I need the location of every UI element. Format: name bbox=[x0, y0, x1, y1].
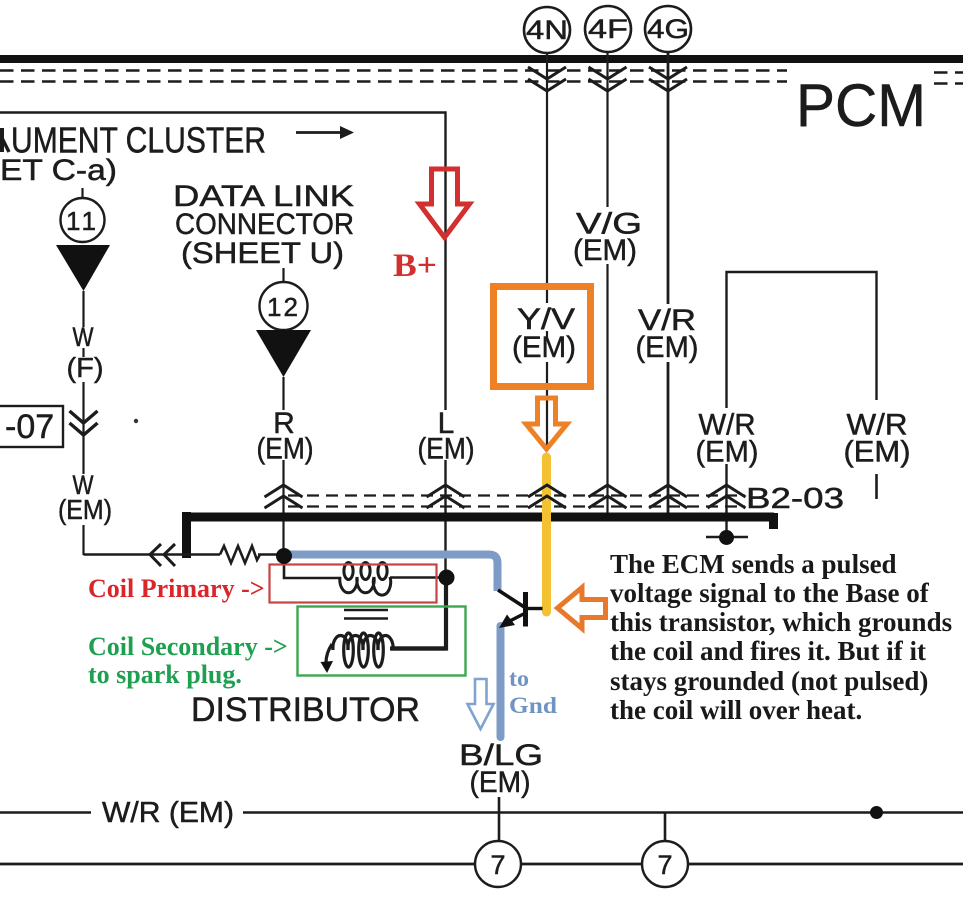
wire L from junction down to coil secondary bbox=[390, 582, 446, 649]
svg-text:B+: B+ bbox=[393, 248, 437, 284]
PCM connector boundary thick line bbox=[0, 55, 963, 63]
W/R left wire terminal junction bbox=[706, 530, 748, 545]
svg-text:(EM): (EM) bbox=[257, 433, 314, 466]
svg-text:(EM): (EM) bbox=[844, 436, 911, 469]
blue down arrow to ground bbox=[468, 679, 494, 729]
wire R vertical bbox=[282, 377, 284, 557]
svg-text:12: 12 bbox=[267, 292, 300, 322]
connector pin 12 bbox=[260, 268, 308, 330]
svg-text:voltage signal to the Base of: voltage signal to the Base of bbox=[610, 578, 930, 608]
svg-text:ET C-a): ET C-a) bbox=[0, 154, 117, 187]
ground pin 7b bbox=[642, 841, 688, 887]
svg-text:Gnd: Gnd bbox=[509, 693, 557, 718]
ground rail 1 (W/R) bbox=[0, 811, 963, 814]
svg-text:(EM): (EM) bbox=[512, 331, 576, 364]
coil secondary spark output arrow bbox=[321, 661, 334, 673]
coil secondary winding bbox=[326, 633, 393, 667]
chevron splice on W wire bbox=[70, 411, 98, 435]
W/R right stub bbox=[875, 474, 878, 499]
svg-text:(EM): (EM) bbox=[470, 766, 531, 799]
svg-text:(SHEET U): (SHEET U) bbox=[181, 237, 344, 270]
chevron splice on 4N wire at PCM bbox=[528, 67, 566, 91]
B/LG wire to ground rail bbox=[498, 797, 501, 843]
node junction at coil primary left bbox=[276, 548, 292, 564]
resistor (noise suppressor) bbox=[220, 546, 260, 563]
flow arrow right bbox=[296, 126, 354, 139]
svg-text:7: 7 bbox=[657, 850, 672, 880]
transformer core lines bbox=[344, 610, 388, 619]
wire 4N (Y/V) bbox=[546, 53, 548, 449]
connector pin 4G bbox=[645, 6, 691, 52]
chevron splice on 4G wire at PCM bbox=[649, 67, 687, 91]
svg-text:(EM): (EM) bbox=[573, 234, 637, 267]
orange down arrow at Y/V bbox=[526, 398, 567, 449]
svg-text:to: to bbox=[509, 666, 529, 691]
svg-text:DISTRIBUTOR: DISTRIBUTOR bbox=[191, 691, 420, 729]
svg-text:(EM): (EM) bbox=[696, 436, 759, 469]
coil secondary annotation box (green) bbox=[298, 607, 466, 676]
B2-03 dashed splice line bbox=[288, 496, 745, 507]
ground rail 2 bbox=[0, 863, 963, 866]
B2-07 reference box (clipped) bbox=[0, 406, 63, 447]
dashed boundary line lower bbox=[0, 82, 963, 84]
shield triangle below pin 12 bbox=[256, 330, 311, 377]
svg-text:(EM): (EM) bbox=[58, 494, 112, 525]
svg-text:PCM: PCM bbox=[796, 72, 926, 139]
chevron splice on L wire at B2-03 bbox=[427, 485, 465, 508]
chevron splice on Y/V wire at B2-03 bbox=[528, 485, 566, 508]
shield triangle below pin 11 bbox=[56, 245, 110, 291]
svg-text:Coil Secondary ->: Coil Secondary -> bbox=[88, 632, 288, 661]
W/R branch bracket bbox=[727, 272, 877, 408]
svg-text:Coil Primary ->: Coil Primary -> bbox=[88, 574, 265, 603]
svg-text:(F): (F) bbox=[67, 352, 104, 383]
svg-text:7: 7 bbox=[490, 850, 505, 880]
junction dot on rail 1 bbox=[870, 806, 883, 819]
stray mark bbox=[134, 419, 138, 423]
svg-text:W/R (EM): W/R (EM) bbox=[102, 797, 234, 829]
svg-text:the coil and fires it. But if: the coil and fires it. But if it bbox=[610, 636, 926, 666]
connector pin 11 bbox=[61, 188, 105, 242]
chevron splice on 4F wire at PCM bbox=[589, 67, 627, 91]
svg-text:4G: 4G bbox=[647, 14, 689, 44]
ECM annotation text block bbox=[610, 549, 952, 725]
instrument cluster boundary line with corner to L wire bbox=[0, 113, 446, 411]
svg-text:this transistor, which grounds: this transistor, which grounds bbox=[610, 607, 952, 637]
wire 4F (V/G) bbox=[606, 52, 608, 513]
chevron splice on V/R wire at B2-03 bbox=[649, 485, 687, 508]
emitter to ground wire highlighted blue bbox=[497, 626, 505, 737]
connector pin 4N bbox=[524, 7, 570, 53]
chevron splice on W/R wire at B2-03 bbox=[708, 485, 746, 508]
wire L mid segment bbox=[444, 460, 446, 575]
ground pin 7a bbox=[475, 841, 521, 887]
svg-text:11: 11 bbox=[66, 206, 99, 236]
coil negative feed wire highlighted blue bbox=[286, 555, 498, 592]
svg-text:stays grounded (not pulsed): stays grounded (not pulsed) bbox=[610, 666, 928, 696]
Y/V signal wire highlighted yellow bbox=[542, 457, 551, 612]
transistor Q1 bbox=[498, 590, 543, 628]
svg-text:The ECM sends a pulsed: The ECM sends a pulsed bbox=[610, 549, 897, 579]
svg-text:B2-03: B2-03 bbox=[746, 483, 844, 515]
chevron splice on horizontal coil feed wire bbox=[150, 544, 175, 566]
wire W(F) vertical bbox=[82, 291, 84, 555]
B+ red arrow bbox=[393, 169, 470, 284]
coil primary annotation box (red) bbox=[270, 565, 437, 603]
svg-text:(EM): (EM) bbox=[418, 433, 475, 466]
node junction at coil primary right on L wire bbox=[439, 570, 455, 586]
coil secondary right exit wire bbox=[391, 646, 446, 650]
Y/V highlight box (orange) bbox=[494, 287, 591, 387]
orange left arrow at transistor base bbox=[558, 588, 606, 629]
dashed boundary line upper bbox=[0, 71, 963, 73]
ground bus thick wire bbox=[183, 512, 774, 558]
INSTRUMENT CLUSTER label (clipped) bbox=[2, 128, 9, 152]
svg-text:-07: -07 bbox=[5, 408, 54, 446]
coil primary winding bbox=[340, 563, 391, 596]
W/R left wire lower segment bbox=[725, 464, 727, 535]
svg-text:to spark plug.: to spark plug. bbox=[88, 660, 242, 689]
wire R down into coil primary bbox=[284, 558, 341, 578]
chevron splice on R wire at B2-03 bbox=[265, 485, 303, 508]
wire 4G (V/R) bbox=[667, 52, 670, 513]
connector pin 4F bbox=[585, 6, 631, 52]
svg-text:the coil will over heat.: the coil will over heat. bbox=[610, 695, 862, 725]
chevron splice on V/G wire at B2-03 bbox=[589, 485, 627, 508]
wire coil primary right to L wire bbox=[390, 576, 447, 578]
svg-text:4N: 4N bbox=[526, 15, 568, 45]
svg-text:(EM): (EM) bbox=[636, 331, 699, 364]
svg-text:4F: 4F bbox=[588, 14, 628, 44]
stub from rail1 to pin 7b bbox=[664, 813, 667, 844]
svg-text:W: W bbox=[73, 322, 94, 352]
wire from W(EM) corner to coil, horizontal bbox=[84, 553, 221, 555]
